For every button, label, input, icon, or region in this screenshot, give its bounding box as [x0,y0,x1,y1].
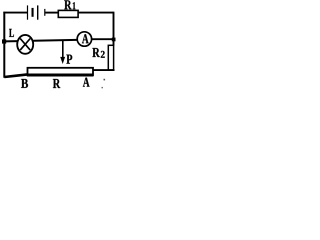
wire bottom-left to rheostat [4,74,27,77]
wire R1 to top-right corner [78,12,113,14]
resistor R1 box [58,10,78,17]
label R2 [92,48,99,57]
lamp cross stroke 2 [20,39,30,51]
wire ammeter to right junction [92,38,114,40]
wire left vertical [3,12,5,78]
wire rheostat right terminal to bottom-right corner [93,69,114,71]
label R1 [64,0,71,9]
lamp cross stroke 1 [20,39,30,51]
battery cell plate short thick [32,8,34,17]
wire junction to lamp [4,40,17,42]
wire lamp to ammeter (slightly sloped) [33,39,77,42]
label B [21,79,28,88]
wire top-left segment from corner to battery [3,12,27,14]
label A [83,78,90,87]
rheostat thick bottom edge [27,74,94,77]
scan speck [104,79,106,81]
ammeter circle [77,32,91,46]
label P [66,55,72,64]
label R [53,79,60,88]
rheostat R box [28,68,94,75]
junction dot right [112,38,116,42]
battery cell plate long (left) [27,5,28,19]
battery cell plate long (middle) [37,5,38,19]
scan speck 2 [102,87,103,88]
label L [9,29,14,37]
wire right vertical lower stub [113,69,115,71]
junction dot left [2,39,6,43]
resistor R2 box [108,45,113,70]
wire right vertical upper [113,12,115,46]
wire battery to R1 [45,12,59,14]
wiper stem wire [62,40,64,58]
ammeter letter A [82,34,89,43]
battery cell plate short thick (right) [44,9,45,16]
wiper arrowhead P [60,57,65,64]
lamp L circle [17,35,33,54]
